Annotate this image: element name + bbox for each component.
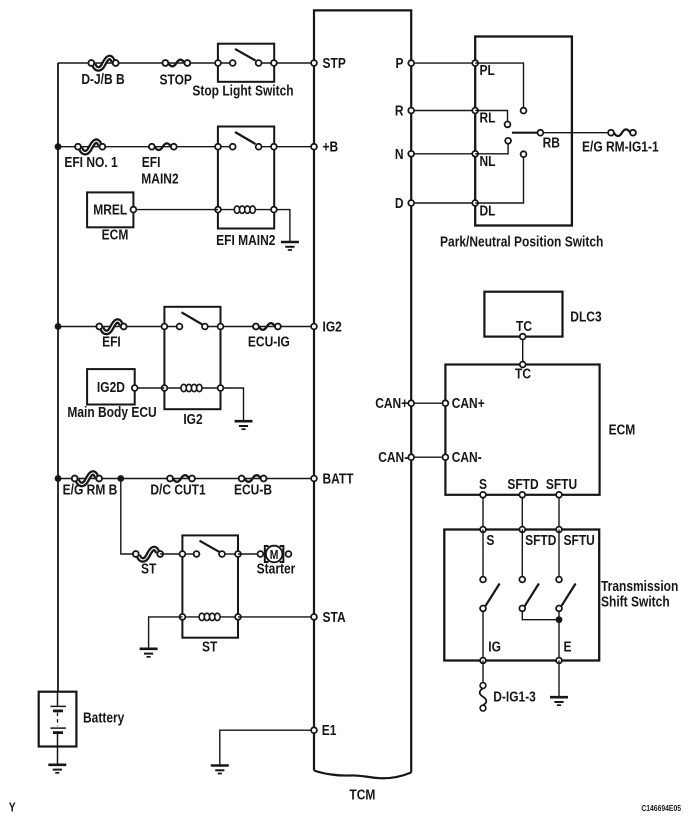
svg-text:D: D: [395, 195, 404, 212]
fuse D/C CUT1: [167, 475, 195, 482]
wire MREL to coil: [133, 209, 218, 211]
node STA: [311, 614, 317, 620]
svg-text:DL: DL: [480, 202, 496, 219]
svg-text:CAN-: CAN-: [378, 449, 408, 466]
wire RB to fuse: [543, 132, 608, 134]
TCM box: [314, 10, 411, 778]
park/neutral position switch box: [475, 37, 572, 226]
wire coil to STA: [238, 616, 314, 618]
svg-text:CAN+: CAN+: [375, 395, 408, 412]
svg-text:TCM: TCM: [349, 786, 375, 803]
svg-text:ECU-IG: ECU-IG: [248, 333, 290, 350]
wire P row: [411, 62, 475, 64]
battery: [39, 692, 77, 747]
svg-text:IG2: IG2: [323, 318, 343, 335]
svg-text:N: N: [395, 146, 404, 163]
wire N row: [411, 153, 475, 155]
wire R row: [411, 110, 475, 112]
svg-text:TC: TC: [515, 365, 531, 382]
wire relay to starter: [238, 553, 260, 555]
DL contact wire: [475, 157, 523, 203]
svg-text:Starter: Starter: [257, 560, 296, 577]
svg-text:ECM: ECM: [102, 226, 129, 243]
switch SFTU: [558, 530, 560, 577]
wire CAN+: [411, 402, 445, 404]
svg-text:R: R: [395, 102, 404, 119]
junction on bus row3: [55, 323, 62, 330]
svg-text:IG: IG: [488, 638, 501, 655]
ground (EFI MAIN2 relay): [281, 242, 299, 250]
wire E down: [558, 661, 560, 698]
wire link to relay: [160, 553, 182, 555]
junction on bus row4: [55, 475, 62, 482]
switch S: [482, 530, 484, 577]
starter motor M: [265, 546, 284, 563]
svg-text:TC: TC: [516, 318, 532, 335]
junction on bus row2: [55, 143, 62, 150]
fuse ECU-IG: [253, 323, 281, 330]
fusible link EFI: [96, 321, 126, 332]
svg-text:ECU-B: ECU-B: [234, 481, 272, 498]
svg-text:D-IG1-3: D-IG1-3: [493, 688, 536, 705]
pin IG: [480, 658, 486, 664]
svg-text:SFTU: SFTU: [564, 532, 595, 549]
Main Body ECU IG2D box: [87, 369, 135, 404]
svg-text:S: S: [479, 476, 487, 493]
svg-text:Stop Light Switch: Stop Light Switch: [192, 82, 293, 99]
PL contact wire: [475, 63, 523, 108]
svg-text:SFTD: SFTD: [525, 532, 556, 549]
ground (E1): [211, 766, 229, 774]
svg-text:C146694E05: C146694E05: [641, 803, 681, 813]
svg-text:NL: NL: [480, 153, 496, 170]
svg-text:MAIN2: MAIN2: [141, 170, 179, 187]
junction branch to ST: [117, 475, 124, 482]
svg-text:MREL: MREL: [93, 201, 127, 218]
vertical fuse D-IG1-3: [480, 683, 487, 711]
fusible link E/G RM B: [72, 473, 102, 484]
relay EFI MAIN2: [218, 127, 274, 229]
junction SFTD/SFTU: [556, 616, 563, 623]
svg-text:IG2: IG2: [183, 411, 203, 428]
svg-text:E1: E1: [322, 722, 337, 739]
svg-text:Transmission: Transmission: [601, 578, 678, 595]
svg-text:D/C CUT1: D/C CUT1: [150, 481, 206, 498]
svg-text:ST: ST: [141, 560, 157, 577]
svg-text:+B: +B: [323, 138, 339, 155]
wire row4 BATT: [58, 478, 314, 480]
wire D row: [411, 202, 475, 204]
fusible link ST: [133, 548, 163, 559]
wire coil to ground: [149, 617, 183, 649]
ground (ST relay): [140, 649, 158, 657]
svg-text:E/G RM B: E/G RM B: [63, 481, 118, 498]
node BATT: [311, 476, 317, 482]
fuse EFI MAIN2: [149, 143, 177, 150]
relay coil ST: [182, 613, 238, 620]
fuse STOP: [163, 60, 191, 67]
relay ST: [182, 535, 238, 637]
transmission shift switch box: [444, 530, 599, 661]
main battery bus wire: [57, 63, 59, 692]
relay IG2: [164, 307, 220, 409]
svg-text:STP: STP: [323, 55, 346, 72]
RL contact wire: [475, 111, 507, 122]
wire SFTU: [558, 495, 560, 530]
svg-text:ST: ST: [202, 638, 218, 655]
wire row1 STP: [58, 62, 314, 64]
fuse E/G RM-IG1-1: [608, 129, 636, 136]
wire DLC3 to ECM: [522, 337, 524, 365]
svg-text:Park/Neutral Position Switch: Park/Neutral Position Switch: [440, 233, 603, 250]
svg-text:CAN+: CAN+: [452, 395, 485, 412]
wire branch down to ST: [121, 479, 136, 555]
svg-text:Main Body ECU: Main Body ECU: [67, 404, 156, 421]
node +B: [311, 144, 317, 150]
svg-text:EFI: EFI: [142, 154, 161, 171]
ECM MREL box: [87, 192, 133, 227]
relay coil EFI MAIN2: [217, 206, 273, 213]
ground (E): [550, 697, 568, 705]
svg-text:Battery: Battery: [83, 709, 125, 726]
node STP: [311, 60, 317, 66]
switch SFTD: [521, 530, 523, 577]
wire row2 +B: [58, 146, 314, 148]
svg-text:E/G RM-IG1-1: E/G RM-IG1-1: [582, 138, 659, 155]
node E1: [311, 727, 317, 733]
svg-text:BATT: BATT: [323, 470, 355, 487]
svg-text:STOP: STOP: [159, 71, 191, 88]
wire E1 to ground: [220, 730, 314, 765]
relay coil IG2: [164, 384, 220, 391]
svg-text:IG2D: IG2D: [97, 379, 125, 396]
svg-text:EFI NO. 1: EFI NO. 1: [64, 154, 118, 171]
pin E: [556, 658, 562, 664]
svg-text:SFTD: SFTD: [507, 476, 538, 493]
svg-text:P: P: [395, 55, 403, 72]
svg-text:CAN-: CAN-: [452, 449, 482, 466]
svg-text:E: E: [564, 638, 572, 655]
wire IG2D to coil: [135, 387, 165, 389]
svg-text:EFI: EFI: [102, 333, 121, 350]
svg-text:Shift Switch: Shift Switch: [601, 593, 670, 610]
svg-text:RB: RB: [543, 134, 560, 151]
fusible link D-J/B B: [88, 57, 118, 68]
NL contact wire: [475, 144, 508, 154]
fusible link EFI NO. 1: [75, 141, 105, 152]
svg-text:RL: RL: [480, 109, 496, 126]
wire IG down: [482, 661, 484, 686]
wire SFTD: [521, 495, 523, 530]
svg-text:ECM: ECM: [609, 421, 636, 438]
svg-text:Y: Y: [9, 800, 16, 814]
svg-text:STA: STA: [323, 609, 346, 626]
wire row3 IG2: [58, 326, 314, 328]
ground (battery): [48, 765, 66, 773]
svg-text:DLC3: DLC3: [570, 308, 602, 325]
DLC3 box: [484, 292, 562, 337]
fuse ECU-B: [239, 475, 267, 482]
wire coil to ground: [223, 388, 243, 421]
stop light switch S1: [218, 44, 274, 82]
svg-text:S: S: [486, 532, 494, 549]
wiper contact RB: [512, 132, 538, 134]
ECM box: [445, 365, 599, 495]
svg-text:D-J/B B: D-J/B B: [81, 71, 124, 88]
svg-text:SFTU: SFTU: [546, 476, 577, 493]
svg-text:EFI MAIN2: EFI MAIN2: [216, 232, 276, 249]
wire coil to ground: [277, 210, 290, 242]
node IG2: [311, 324, 317, 330]
svg-text:PL: PL: [480, 62, 495, 79]
ground (IG2 relay): [235, 421, 253, 429]
wire CAN-: [411, 456, 445, 458]
wire S: [482, 495, 484, 530]
